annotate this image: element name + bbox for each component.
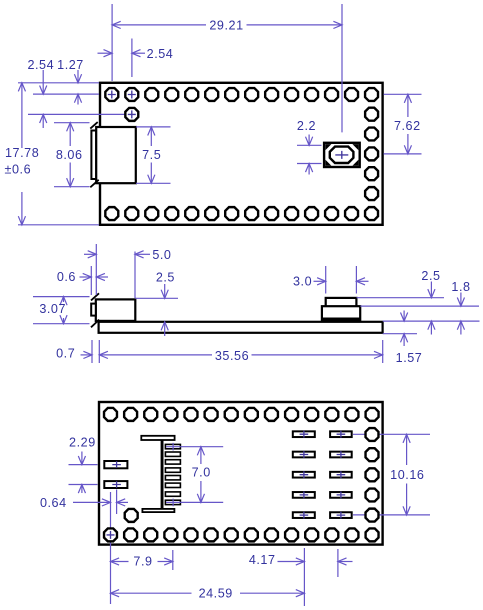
pushbutton body (side view) (322, 306, 360, 321)
USB footprint spine (bottom view) (161, 441, 164, 509)
dim 2.54 (left) arrows (42, 70, 44, 94)
svg-text:1.57: 1.57 (396, 351, 423, 365)
svg-text:7.5: 7.5 (142, 148, 161, 162)
dim 1.8 arrows (460, 293, 462, 307)
board-edge tick lower (top view) (90, 180, 98, 188)
top pin row, 14 pads (bottom view) (104, 408, 379, 421)
origin cross offset pad (top view) (128, 110, 136, 118)
svg-text:2.54: 2.54 (147, 47, 174, 61)
dim 2.5 (left) arrows (164, 284, 166, 298)
USB connector shield tab (top view) (91, 131, 96, 180)
svg-text:2.5: 2.5 (156, 271, 175, 285)
svg-text:2.54: 2.54 (27, 58, 54, 72)
bottom pin row, 14 pads (bottom view) (104, 528, 379, 541)
dim 7.9 extension line (USB center) (172, 550, 174, 570)
dim 3.07 reference line bottom (33, 323, 90, 325)
svg-text:3.07: 3.07 (39, 302, 66, 316)
dim 4.17 line and arrows (278, 561, 305, 563)
reference line button cap top (right) (357, 297, 445, 299)
extension line SMD column A to dim 10.16 bottom reference (bottom view) (353, 514, 430, 516)
reference line button body top (right) (360, 305, 479, 307)
svg-text:24.59: 24.59 (199, 587, 233, 601)
board outline (top view) (100, 83, 383, 225)
dim 2.54 extension line at pin 2 (131, 39, 133, 78)
board-edge tick upper (side view) (91, 293, 99, 300)
svg-text:7.62: 7.62 (394, 119, 421, 133)
dim 7.62 reference line top (384, 93, 422, 95)
svg-text:29.21: 29.21 (209, 19, 243, 33)
PCB body (side view) (99, 322, 383, 333)
USB connector tab (side view) (91, 304, 96, 316)
extension line mounting pad column (bottom view, 0.64/7.9/24.59) (110, 492, 112, 604)
svg-text:35.56: 35.56 (215, 349, 249, 363)
svg-text:10.16: 10.16 (390, 468, 424, 482)
dim 7.5 line and arrows (150, 127, 152, 146)
svg-text:3.0: 3.0 (293, 275, 312, 289)
dim 0.6 arrows (80, 276, 92, 278)
origin cross pin 1 (top view) (108, 91, 116, 99)
dim 3.0 arrows (314, 280, 326, 282)
cross SMD pad P2 (112, 481, 121, 487)
svg-text:2.29: 2.29 (69, 435, 96, 449)
extension line row2-offset pad (top view, 2.54 left dim lower reference) (28, 113, 132, 115)
dim 29.21 extension line at crystal (341, 4, 343, 132)
dim 2.29 reference line bottom (69, 484, 98, 486)
svg-text:2.5: 2.5 (421, 269, 440, 283)
dim 0.64 line and arrows (73, 501, 111, 503)
USB connector body (side view) (96, 299, 136, 321)
dim 10.16 line and arrows (406, 434, 408, 465)
SMD pad P2 (bottom view left) (104, 481, 127, 488)
pushbutton cap (side view) (326, 298, 357, 308)
USB footprint top pad (bottom view) (141, 436, 174, 440)
dim 2.5 (right) arrows (430, 282, 432, 298)
origin cross pin 2 (top view) (128, 91, 136, 99)
board-edge tick lower (side view) (91, 320, 99, 328)
USB footprint bottom pad (bottom view) (142, 509, 174, 512)
svg-text:5.0: 5.0 (152, 248, 171, 262)
crystal body oval (top view) (330, 147, 354, 163)
cross SMD pad P1 (112, 461, 121, 468)
board outline (bottom view) (99, 402, 383, 545)
via pad (bottom view) (125, 509, 138, 522)
USB connector body (top view) (96, 127, 136, 183)
reference line PCB bottom (right) (383, 333, 417, 335)
dim 7.9 line and arrows (111, 561, 129, 563)
top pin row, 14 pads (top view) (105, 88, 378, 101)
dim 2.2 reference line bottom (297, 163, 322, 165)
crystal pad corner fills (325, 144, 358, 166)
extension line board bottom edge (left) (18, 224, 99, 226)
right pin column, 5 pads (bottom view) (366, 428, 379, 522)
dim 0.7 arrow (81, 354, 93, 356)
extension line pin row 1 (left) (33, 93, 99, 95)
right pin column, 5 pads (top view) (365, 108, 378, 200)
dim 2.29 arrows (81, 452, 83, 465)
SMD pad P1 (bottom view left) (104, 461, 127, 468)
dim 3.07 reference line top (33, 296, 90, 298)
svg-text:±0.6: ±0.6 (5, 163, 32, 177)
svg-text:2.2: 2.2 (297, 119, 316, 133)
extension line SMD column A to dim 10.16 top reference (bottom view) (353, 433, 430, 435)
dim 2.54 (top) arrows (98, 52, 113, 54)
dim 8.06 line and arrows (69, 123, 71, 146)
dim 4.17 extension line column A (303, 548, 305, 606)
dim 8.06 reference line bottom (54, 186, 90, 188)
extension line board top edge (left) (18, 82, 99, 84)
dim 0.64 extension line SMD pads (116, 490, 118, 515)
svg-text:4.17: 4.17 (249, 553, 276, 567)
svg-text:8.06: 8.06 (56, 148, 83, 162)
origin cross crystal (top view) (335, 151, 348, 159)
bottom pin row, 14 pads (top view) (105, 207, 378, 220)
dim 35.56 extension line (right) (382, 340, 384, 363)
dim 7.62 reference line bottom (384, 153, 422, 155)
dim 17.78 line and arrows (21, 83, 23, 148)
dim 35.56 line and arrows (99, 354, 212, 356)
dim 0.6 extension lines (90, 266, 92, 295)
cross rung 1 / dim 7.0 top reference (166, 443, 223, 451)
SMD pads column A (bottom view right) (293, 431, 315, 518)
dim 3.0 extension lines (325, 266, 327, 294)
dim 0.7 extension lines (91, 340, 93, 363)
dim 2.29 reference line top (69, 464, 98, 466)
svg-text:0.64: 0.64 (40, 496, 67, 510)
dim 2.2 reference line top (297, 144, 322, 146)
dim 8.06 reference line top (54, 122, 90, 124)
pushbutton base fill (side view) (322, 318, 360, 322)
dim 3.07 arrows (63, 297, 65, 302)
dim 24.59 line and arrows (111, 592, 192, 594)
svg-text:17.78: 17.78 (5, 146, 39, 160)
svg-text:0.6: 0.6 (57, 270, 76, 284)
dim 7.62 line and arrows (407, 94, 409, 117)
dim 7.5 reference line bottom (136, 182, 171, 184)
dim 7.0 line and arrows (200, 447, 202, 464)
svg-text:7.9: 7.9 (133, 554, 152, 568)
crystal pad outline (top view) (324, 143, 360, 167)
svg-text:7.0: 7.0 (192, 466, 211, 480)
dim 5.0 extension line (USB right) (134, 252, 136, 299)
crosses SMD column B (337, 431, 346, 519)
pad row-offset (top view, below pin 2) (125, 108, 138, 121)
board-edge tick upper (top view) (90, 122, 97, 129)
dim 29.21 line and arrows (112, 24, 206, 26)
dim 7.5 reference line top (136, 126, 171, 128)
svg-text:0.7: 0.7 (56, 347, 75, 361)
reference line PCB top (right) (383, 320, 480, 322)
origin cross corner pad (bottom view) (107, 531, 115, 539)
crosses SMD column A (300, 431, 309, 519)
dim 2.5 (left) reference line (135, 297, 178, 299)
SMD pads column B (bottom view right) (330, 431, 352, 518)
dim 29.21 extension line at pin 1 (111, 4, 113, 81)
cross rung 8 / dim 7.0 bottom reference (166, 499, 223, 507)
svg-text:1.8: 1.8 (451, 280, 470, 294)
dim 2.2 arrows (308, 135, 310, 146)
dim 4.17 extension line column B (337, 549, 339, 577)
dim 1.57 arrows (403, 311, 405, 322)
dim 1.27 arrows (77, 70, 79, 83)
svg-text:1.27: 1.27 (57, 58, 84, 72)
USB footprint contact rungs (bottom view) (165, 444, 180, 504)
dim 5.0 arrows (84, 253, 96, 255)
